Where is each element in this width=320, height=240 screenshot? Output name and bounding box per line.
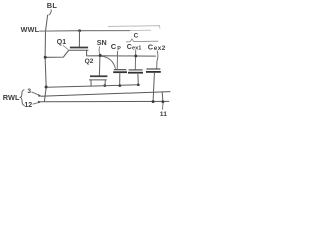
wire RWL line 3 <box>41 92 171 97</box>
wire Q1 gate lead <box>78 31 80 47</box>
svg-text:SN: SN <box>97 38 107 47</box>
junction dot WWL/Q1 gate <box>78 29 81 32</box>
wire WWL horizontal faded right end <box>130 29 151 31</box>
wire mid horizontal line BL to Cex1 lead <box>46 85 138 87</box>
svg-text:C: C <box>111 42 117 51</box>
arrowhead of 3 leader <box>38 94 42 97</box>
junction dot Cp lead/mid line <box>118 84 121 87</box>
transistor Q2 channel <box>89 79 107 81</box>
wire leader from 12 <box>33 102 41 104</box>
svg-text:RWL: RWL <box>3 93 20 102</box>
wire Q2 source lead down <box>90 80 92 86</box>
svg-text:BL: BL <box>47 1 58 10</box>
svg-text:11: 11 <box>160 111 167 118</box>
wire Cex2 label curve lead <box>157 51 158 69</box>
wire SN label lead <box>98 46 101 54</box>
svg-text:ex1: ex1 <box>132 45 141 51</box>
wire WWL horizontal <box>39 30 130 33</box>
wire Cp top lead <box>116 51 118 70</box>
junction dot Cex1 lead/mid line end <box>137 83 140 86</box>
wire Cex1 bottom lead <box>137 74 139 85</box>
wire faint upper line over capacitor section <box>108 26 160 29</box>
wire arc SN to Cp top plate <box>101 56 115 69</box>
junction dot Q2 drain on mid line <box>103 84 106 87</box>
capacitor Cp top plate <box>114 69 127 71</box>
wire Q1 source lead to BL <box>45 51 68 58</box>
junction dot Cex2 lead/line 12 <box>152 100 155 103</box>
wire Cex2 bottom lead long <box>153 73 154 102</box>
transistor Q2 gate bar <box>90 75 107 77</box>
transistor Q1 channel <box>68 49 88 51</box>
junction dot vertical/line 12 <box>161 100 164 103</box>
svg-text:C: C <box>134 33 139 40</box>
wire vertical between line3 and line12 right <box>161 92 164 102</box>
capacitor Cp bottom plate <box>113 71 127 73</box>
svg-text:Q2: Q2 <box>85 58 94 65</box>
wire Cp bottom lead <box>119 73 121 85</box>
svg-text:3: 3 <box>27 88 31 95</box>
svg-text:12: 12 <box>24 102 32 109</box>
wire SN node rail <box>87 55 156 57</box>
junction dot SN node <box>99 54 102 57</box>
junction dot BL/mid line <box>45 86 48 89</box>
capacitor Cex2 top plate <box>146 68 160 70</box>
junction dot BL/Q1 source <box>44 56 47 59</box>
wire Cex1 top lead <box>134 50 136 70</box>
wire Q1 label leader <box>63 45 68 49</box>
capacitor Cex2 bottom plate <box>146 71 161 73</box>
wire leader from 3 <box>32 92 41 96</box>
wire leader from 11 <box>161 102 164 109</box>
transistor Q1 gate bar <box>70 47 88 49</box>
svg-text:Q1: Q1 <box>57 39 66 46</box>
brace RWL <box>20 90 25 106</box>
wire Q2 gate lead from SN <box>98 56 101 76</box>
svg-text:WWL: WWL <box>21 25 40 34</box>
arrowhead of 12 leader <box>38 101 42 104</box>
capacitor Cex1 top plate <box>129 69 143 71</box>
wire RWL line 12 <box>41 100 170 102</box>
capacitor Cex1 bottom plate <box>128 72 143 74</box>
wire Q2 drain lead down <box>104 80 106 85</box>
wire BL label lead hook <box>49 10 52 16</box>
junction dot SN rail/Cex1 <box>134 55 137 58</box>
wire bitline BL vertical <box>44 15 47 102</box>
wire Q1 drain lead down <box>86 50 88 56</box>
svg-text:ex2: ex2 <box>154 45 166 52</box>
brace under C over capacitor labels <box>126 39 158 42</box>
